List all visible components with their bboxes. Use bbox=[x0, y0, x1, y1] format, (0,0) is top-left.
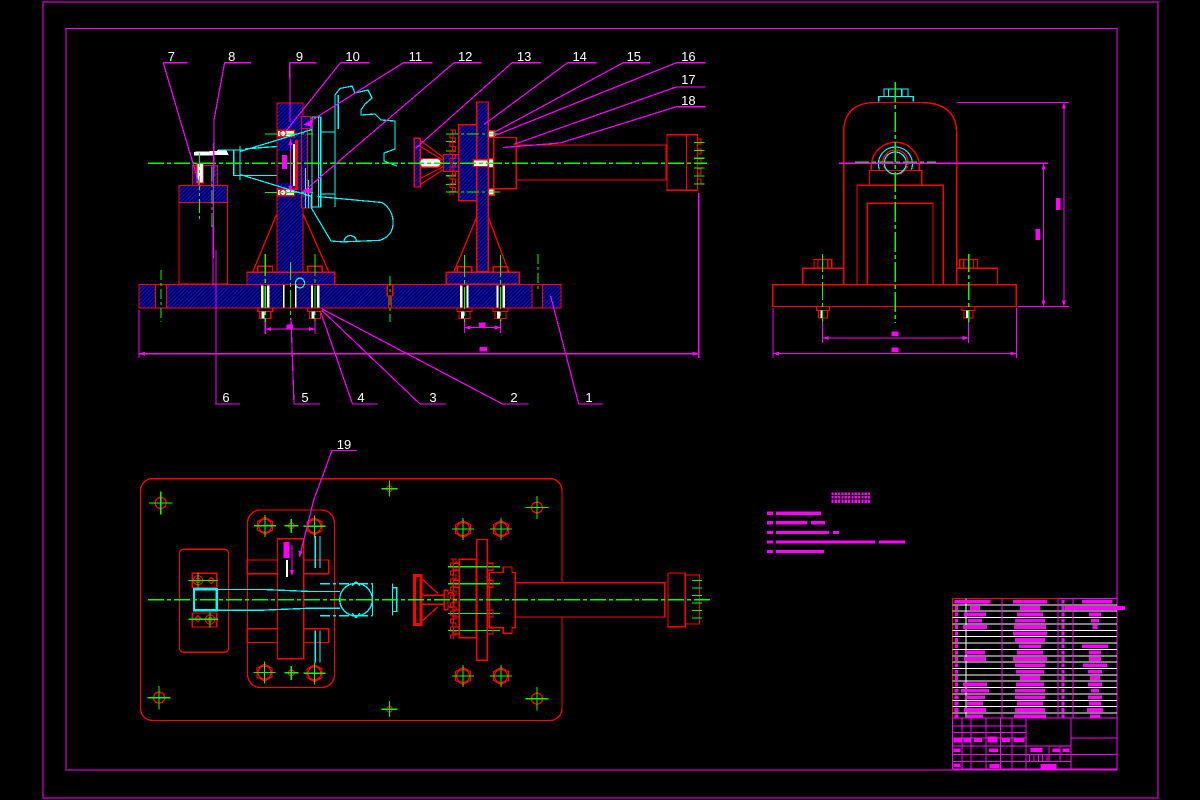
callouts top bbox=[168, 49, 696, 108]
plan plate bbox=[141, 479, 563, 721]
dimensions bbox=[773, 103, 1069, 359]
pin bottom bbox=[278, 189, 295, 196]
boss plan bbox=[489, 567, 515, 633]
wing bolt right bbox=[960, 259, 978, 268]
support plate 15 bbox=[477, 102, 489, 272]
bore circle bbox=[883, 150, 908, 165]
disc screw bbox=[420, 159, 442, 168]
workpiece tail cyan bbox=[219, 147, 280, 176]
svg-text:3: 3 bbox=[429, 390, 436, 405]
column 9 bbox=[277, 103, 303, 272]
body dome bbox=[844, 103, 957, 285]
base plate side bbox=[773, 285, 1017, 307]
svg-text:11: 11 bbox=[409, 49, 423, 64]
diaphragm disc 13 bbox=[414, 138, 420, 187]
base plate 1 bbox=[139, 285, 561, 309]
inner U inner bbox=[867, 203, 933, 285]
bolts below plate bbox=[258, 308, 273, 319]
wings bbox=[803, 268, 998, 284]
svg-text:18: 18 bbox=[681, 93, 695, 108]
inner U outer bbox=[857, 185, 943, 285]
thread plan bbox=[685, 575, 699, 624]
svg-text:19: 19 bbox=[337, 437, 351, 452]
bearing dome arc bbox=[871, 142, 919, 170]
cyan arcs bbox=[878, 147, 912, 169]
left pad plan bbox=[248, 510, 335, 688]
title block grid bbox=[953, 717, 1118, 719]
central stud bbox=[473, 160, 488, 167]
pad bolts bbox=[254, 515, 276, 537]
saddle bbox=[869, 171, 921, 186]
leaders bbox=[163, 63, 200, 187]
left support plan bbox=[180, 549, 229, 652]
title block text blobs bbox=[954, 739, 962, 743]
wing bolt left bbox=[814, 259, 832, 268]
top cap cyan bbox=[879, 89, 914, 102]
svg-text:16: 16 bbox=[681, 49, 695, 64]
plate plan bbox=[477, 540, 488, 661]
right flange block bbox=[446, 272, 519, 284]
clamp screw 7 bbox=[197, 164, 204, 184]
svg-text:1: 1 bbox=[585, 390, 592, 405]
svg-text:5: 5 bbox=[301, 390, 308, 405]
end cap bbox=[667, 135, 698, 190]
diaphragm plan bbox=[414, 576, 421, 625]
claw bottom bbox=[302, 196, 311, 208]
svg-text:8: 8 bbox=[228, 49, 235, 64]
plan centerline bbox=[148, 599, 712, 601]
svg-text:10: 10 bbox=[345, 49, 359, 64]
clamp seat bbox=[193, 166, 218, 186]
svg-text:2: 2 bbox=[510, 390, 517, 405]
svg-text:6: 6 bbox=[222, 390, 229, 405]
centerlines bbox=[823, 82, 969, 323]
BOM table frame bbox=[953, 598, 1059, 600]
spring ticks bbox=[446, 142, 456, 185]
plate bolts right bbox=[488, 131, 494, 137]
cylinder boss bbox=[494, 138, 517, 189]
bolt shanks through plate bbox=[261, 286, 270, 308]
svg-text:7: 7 bbox=[168, 49, 175, 64]
threaded end serration bbox=[698, 139, 701, 184]
svg-text:9: 9 bbox=[296, 49, 303, 64]
wedge 8 bbox=[194, 150, 229, 156]
bolts below base bbox=[817, 307, 830, 319]
claw top bbox=[302, 117, 311, 129]
left flange block bbox=[247, 272, 335, 284]
cone bbox=[420, 141, 443, 185]
svg-text:12: 12 bbox=[458, 49, 472, 64]
cylinder 18 bbox=[516, 145, 666, 180]
end cap plan bbox=[665, 573, 686, 627]
hub bushing bbox=[444, 155, 459, 172]
tech requirements title bbox=[832, 493, 841, 504]
tech requirement lines bbox=[767, 512, 773, 515]
column legs bbox=[253, 214, 277, 272]
svg-text:17: 17 bbox=[681, 72, 695, 87]
svg-text:4: 4 bbox=[357, 390, 364, 405]
clamp bar bbox=[293, 144, 295, 186]
workpiece plan bbox=[217, 582, 397, 618]
wings bbox=[247, 560, 329, 643]
thin plate bbox=[302, 121, 308, 203]
BOM cell text blobs bbox=[955, 600, 991, 604]
cylinder plan bbox=[515, 583, 665, 617]
hub block bbox=[459, 125, 477, 201]
small holes mid bbox=[382, 481, 398, 497]
hub block plan bbox=[459, 559, 476, 638]
svg-text:14: 14 bbox=[572, 49, 586, 64]
stud nuts above flange bbox=[258, 266, 273, 272]
right plate legs bbox=[454, 218, 477, 273]
workpiece cyan outline bbox=[240, 86, 397, 288]
centerlines bbox=[148, 134, 707, 322]
column footprint bbox=[278, 539, 304, 659]
callouts bottom bbox=[222, 390, 592, 405]
dimension 80 left bbox=[139, 193, 699, 358]
corner holes bbox=[149, 491, 172, 514]
m5 label plan bbox=[284, 542, 290, 558]
left support cap bbox=[179, 186, 228, 203]
cyan flange hidden edges bbox=[315, 536, 320, 663]
svg-text:13: 13 bbox=[517, 49, 531, 64]
pin top 10 bbox=[278, 130, 295, 137]
plate bolts plan bbox=[448, 567, 500, 631]
svg-text:15: 15 bbox=[627, 49, 641, 64]
dim phi label on column bbox=[282, 155, 287, 169]
left support post 6 bbox=[179, 203, 228, 285]
